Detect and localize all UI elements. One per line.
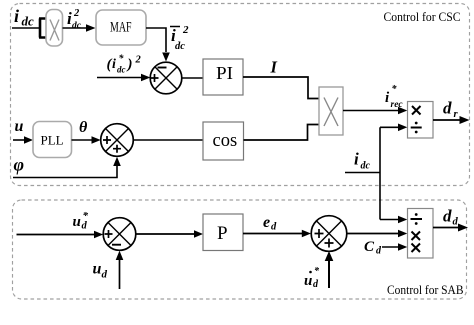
wire squarer to MAF <box>63 27 89 29</box>
node udot*_d label <box>304 266 320 290</box>
svg-text:i: i <box>112 57 116 72</box>
summer S2 (plus left, plus bottom) <box>101 124 134 157</box>
block PLL <box>33 122 72 158</box>
wire i_dc vertical <box>379 127 381 219</box>
svg-text:2: 2 <box>182 24 189 36</box>
svg-text:PLL: PLL <box>41 133 64 148</box>
svg-text:dc: dc <box>117 65 126 75</box>
wire i_dc into D1 <box>380 126 400 128</box>
svg-text:d: d <box>453 217 459 228</box>
wire udot*_d into S4 bottom <box>328 260 330 288</box>
svg-text:i: i <box>14 6 19 26</box>
svg-text:dc: dc <box>175 41 185 52</box>
svg-text:u: u <box>15 118 24 135</box>
wire u*_d into summer S3 <box>17 234 97 236</box>
node u_d label <box>93 261 108 281</box>
wire S2 to cos <box>133 139 203 141</box>
svg-text:Control for CSC: Control for CSC <box>384 9 461 24</box>
node C_d label <box>364 239 382 257</box>
wire phi into S2 bottom <box>13 165 117 178</box>
divider D2 block (divide, x, x) <box>408 209 434 259</box>
svg-text:cos: cos <box>213 131 238 151</box>
svg-text:dc: dc <box>22 14 35 29</box>
multiplier M1 block <box>319 87 343 135</box>
wire C_d into D2 <box>382 246 400 248</box>
node u*_d label <box>73 210 89 232</box>
wire D1 output d_r <box>433 119 461 121</box>
svg-text:i: i <box>354 150 359 169</box>
multiplier (squarer) block <box>46 10 63 47</box>
svg-text:MAF: MAF <box>110 20 132 36</box>
wire u into PLL <box>13 139 26 141</box>
node ibar_dc^2 label <box>170 24 189 52</box>
divider D1 block (x over divide) <box>408 102 434 139</box>
svg-text:φ: φ <box>14 155 25 175</box>
node i_dc feed label <box>354 150 371 172</box>
wire PI to multiplier M1 upper input <box>243 77 319 99</box>
block MAF <box>96 10 146 45</box>
svg-text:d: d <box>102 269 108 281</box>
block PI <box>203 59 243 95</box>
node d_r label <box>443 99 459 121</box>
wire PLL to summer S2 <box>72 139 95 141</box>
svg-text:C: C <box>364 239 375 255</box>
block P <box>203 214 243 251</box>
wire MAF to summer S1 <box>146 28 166 52</box>
wire S4 to D2 <box>346 233 400 235</box>
svg-text:u: u <box>93 261 102 278</box>
node i_dc (input label top-left) <box>14 6 34 29</box>
wire S3 to P <box>136 233 196 235</box>
svg-text:I: I <box>270 58 278 77</box>
wire D2 output d_d <box>433 227 460 229</box>
dashed border: Control for SAB box <box>13 200 467 299</box>
wire i_dc into D2 <box>380 219 400 221</box>
wire P to summer S4, node e_d <box>243 233 304 235</box>
wire i_dc feed <box>345 172 380 174</box>
wire u_d into S3 bottom <box>119 259 121 289</box>
node (i*_dc)^2 label <box>107 54 142 75</box>
summer S4 (plus left, plus bottom) <box>311 216 347 252</box>
block cos <box>203 122 244 160</box>
summer S3 (plus left, minus bottom) <box>103 218 136 251</box>
node i_dc^2 label <box>67 8 82 31</box>
wire i_dc input <box>12 27 40 29</box>
node i*_rec label <box>385 84 403 110</box>
svg-text:dc: dc <box>72 21 82 31</box>
svg-text:rec: rec <box>391 100 404 110</box>
wire split bracket into squarer <box>39 19 47 38</box>
summer S1 (minus top, plus left) <box>150 62 182 94</box>
wire M1 to divider D1 <box>343 110 400 112</box>
svg-text:u: u <box>304 273 312 289</box>
wire cos to multiplier M1 lower input <box>244 125 320 141</box>
node e_d label <box>263 214 277 233</box>
svg-text:d: d <box>82 221 88 232</box>
svg-text:2: 2 <box>135 55 142 66</box>
svg-text:u: u <box>73 214 81 230</box>
svg-text:e: e <box>263 214 270 231</box>
dashed border: Control for CSC box <box>11 4 470 186</box>
node d_d label <box>443 207 459 228</box>
svg-text:d: d <box>271 222 277 233</box>
svg-text:d: d <box>443 99 452 118</box>
svg-text:): ) <box>126 57 133 73</box>
svg-text:d: d <box>443 207 452 226</box>
wire (i*_dc)^2 into summer S1 <box>97 77 143 79</box>
svg-text:dc: dc <box>361 161 371 172</box>
svg-text:θ: θ <box>79 119 88 136</box>
svg-text:P: P <box>217 223 228 244</box>
svg-text:PI: PI <box>216 63 233 83</box>
wire S1 to PI <box>182 77 203 79</box>
svg-text:Control for SAB: Control for SAB <box>387 282 464 297</box>
svg-text:2: 2 <box>73 8 80 19</box>
